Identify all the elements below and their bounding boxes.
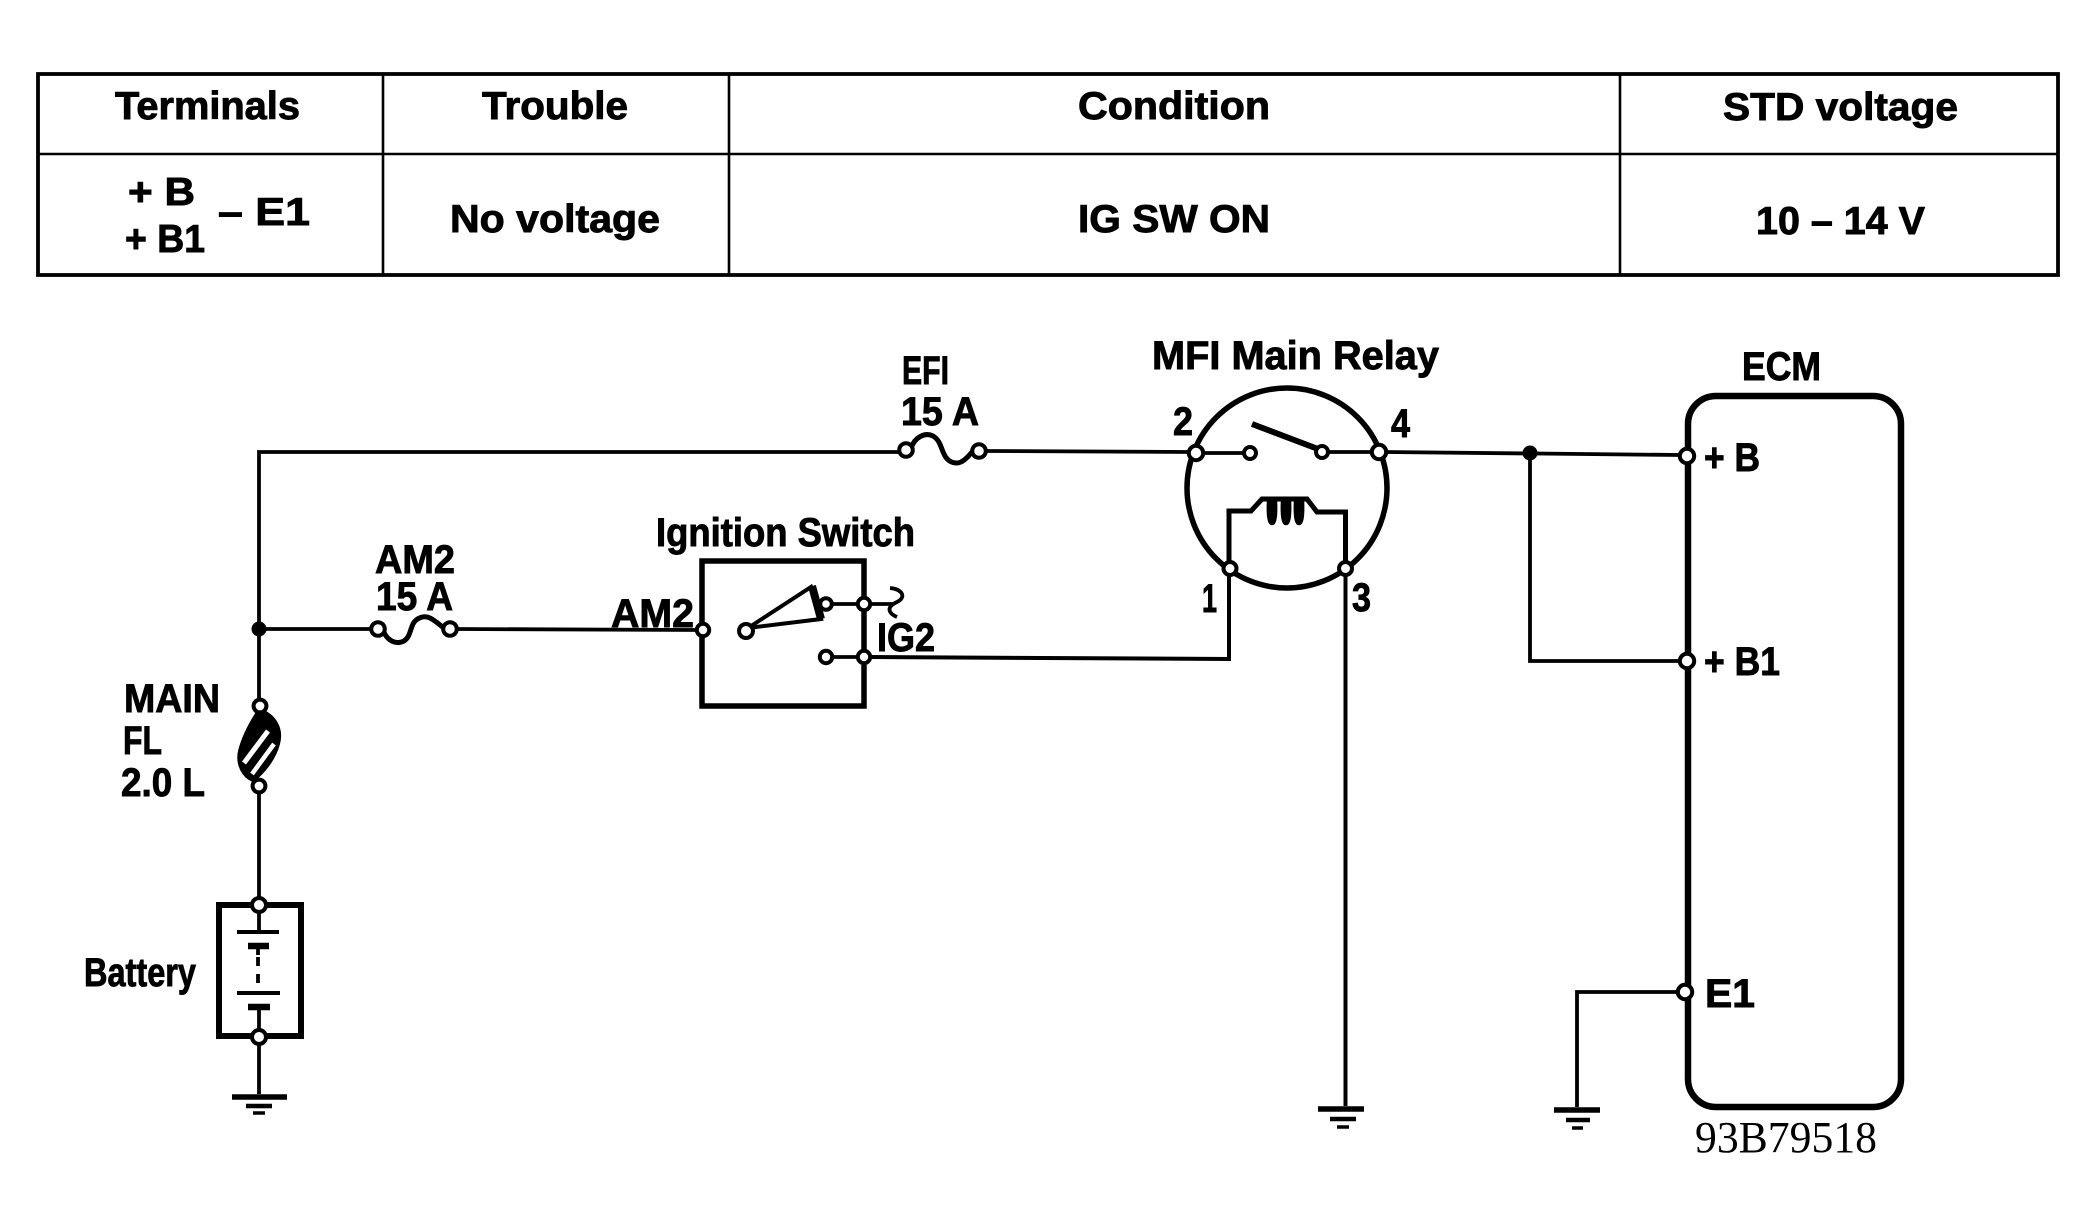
svg-text:Terminals: Terminals — [115, 85, 300, 128]
wire: upper contact to box edge — [832, 602, 858, 606]
relay contact wires — [1203, 451, 1244, 455]
svg-text:+ B: + B — [1704, 436, 1760, 480]
svg-text:– E1: – E1 — [218, 191, 310, 234]
svg-text:2: 2 — [1173, 400, 1193, 444]
wire: relay terminal 3 to ground — [1344, 575, 1348, 1106]
svg-text:2.0 L: 2.0 L — [121, 761, 205, 805]
relay inner contact left — [1244, 447, 1256, 459]
wire: AM2 feed — [259, 627, 372, 631]
wire stub + break squiggle — [870, 602, 893, 606]
switch blade wedge — [748, 587, 821, 628]
battery — [219, 905, 301, 1036]
wire: junction down to +B1 — [1530, 453, 1678, 661]
switch pivot terminal — [739, 624, 753, 638]
coil loops — [1268, 501, 1276, 524]
relay inner contact right — [1316, 446, 1328, 458]
relay terminal 4 — [1372, 445, 1386, 459]
switch AM2 terminal on box edge — [697, 624, 709, 636]
relay blade — [1252, 424, 1318, 449]
svg-text:Battery: Battery — [84, 951, 197, 995]
svg-text:No voltage: No voltage — [450, 198, 660, 241]
node: junction at AM2 branch — [252, 622, 267, 637]
svg-text:3: 3 — [1352, 576, 1371, 620]
svg-text:STD voltage: STD voltage — [1723, 86, 1958, 129]
switch upper contact — [820, 598, 832, 610]
battery internals — [237, 912, 280, 1030]
ECM terminal +B1 — [1680, 654, 1694, 668]
switch IG2 contact — [820, 651, 832, 663]
node: junction at +B branch — [1523, 446, 1538, 461]
svg-text:AM2: AM2 — [611, 592, 694, 636]
svg-text:MFI Main Relay: MFI Main Relay — [1152, 334, 1440, 378]
svg-text:Condition: Condition — [1078, 85, 1270, 128]
ground: battery — [232, 1097, 287, 1113]
relay terminal 1 — [1224, 562, 1237, 575]
svg-text:EFI: EFI — [902, 349, 949, 393]
wire: battery to ground — [257, 1044, 261, 1094]
svg-text:Trouble: Trouble — [482, 85, 628, 128]
wire: AM2 fuse to ignition switch — [457, 629, 700, 630]
relay coil circuit — [1229, 499, 1346, 562]
svg-text:1: 1 — [1202, 577, 1217, 621]
svg-text:15 A: 15 A — [901, 390, 979, 434]
ground: E1 — [1554, 1110, 1600, 1128]
svg-text:ECM: ECM — [1742, 345, 1821, 389]
svg-text:E1: E1 — [1705, 972, 1755, 1016]
svg-text:Ignition Switch: Ignition Switch — [656, 511, 915, 555]
relay terminal 2 — [1189, 446, 1203, 460]
wire: IG2 to relay terminal 1 — [870, 575, 1229, 659]
ground: relay coil — [1318, 1109, 1364, 1127]
fuse AM2 15 A — [371, 617, 457, 643]
wire: relay terminal 4 to ECM +B — [1386, 452, 1680, 455]
svg-text:+ B1: + B1 — [1704, 640, 1780, 684]
wire: battery feed vertical (left) — [259, 452, 899, 704]
relay terminal 3 — [1339, 562, 1352, 575]
svg-text:15 A: 15 A — [376, 575, 453, 619]
svg-text:FL: FL — [123, 719, 162, 763]
ECM terminal +B — [1680, 449, 1694, 463]
main fusible link MAIN FL 2.0 L — [238, 709, 280, 781]
svg-text:10 – 14 V: 10 – 14 V — [1756, 200, 1925, 243]
ECM box — [1688, 396, 1901, 1107]
svg-text:IG2: IG2 — [877, 616, 935, 660]
svg-text:4: 4 — [1391, 402, 1411, 446]
svg-text:MAIN: MAIN — [124, 677, 220, 721]
table frame — [38, 74, 2058, 275]
ignition switch box — [702, 561, 864, 706]
switch IG2 terminal on box edge — [858, 651, 870, 663]
svg-text:+ B: + B — [128, 171, 195, 214]
svg-text:+ B1: + B1 — [125, 218, 205, 261]
ECM terminal E1 — [1678, 985, 1692, 999]
fuse EFI 15 A — [899, 435, 986, 463]
wire: EFI fuse to relay terminal 2 — [986, 451, 1190, 452]
wire: E1 to ground — [1577, 992, 1678, 1107]
switch upper terminal on box edge — [858, 598, 870, 610]
svg-text:93B79518: 93B79518 — [1695, 1113, 1877, 1162]
wire: fusible link to battery — [257, 792, 261, 898]
wire: IG2 contact to box edge — [832, 655, 858, 659]
svg-text:IG SW ON: IG SW ON — [1078, 198, 1270, 241]
